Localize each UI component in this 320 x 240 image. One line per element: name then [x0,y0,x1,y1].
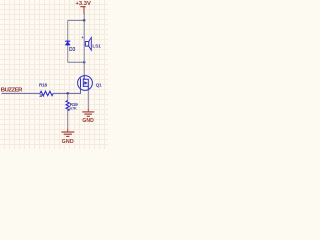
zigzag body [40,91,53,95]
ground GND at R19 bottom [61,129,74,145]
zigzag body [66,101,69,111]
cathode bar [65,40,70,42]
svg-text:BUZZER: BUZZER [1,87,23,93]
node top junction [83,19,86,22]
body circle [78,76,93,91]
ground bar 2 [64,133,72,135]
channel bar [82,78,84,87]
source stub [83,85,88,87]
svg-text:4.7K: 4.7K [70,106,77,110]
ground stub [87,109,89,112]
resistor R19 [66,93,78,128]
wire power to top rail [83,14,85,21]
svg-text:D3: D3 [69,47,76,53]
wire buzzer net left segment [2,92,41,94]
anode triangle [65,42,70,46]
drain-source conductor [83,79,88,90]
svg-text:Q1: Q1 [96,82,102,87]
ground GND at transistor source [82,109,94,124]
svg-text:+3.3V: +3.3V [76,1,91,7]
wire source to ground [87,90,89,109]
wire diode branch bottom horizontal [68,61,85,63]
ground bar 1 [61,131,74,133]
ground bar 3 [66,135,69,137]
svg-text:1K: 1K [39,93,44,98]
pin stubs [84,42,85,45]
diode D3 [65,41,75,53]
ground bar 2 [84,113,92,115]
ground bar 1 [82,111,94,113]
bulk arrow [84,81,87,85]
wire speaker branch vertical [83,20,85,76]
power bar [80,6,85,8]
wire top lead [67,93,69,100]
bulk link [83,82,84,84]
svg-text:GND: GND [62,139,74,145]
wire diode branch vertical [67,20,69,62]
speaker LS1 [82,35,102,50]
gate bar [80,78,82,87]
resistor R18 [39,83,53,99]
ground bar 3 [87,115,90,117]
wire bottom lead [67,110,69,129]
speaker cone [89,38,92,51]
svg-text:R18: R18 [39,83,48,89]
node gate/R19 junction [66,92,69,95]
drain stub [83,76,85,80]
power port +3.3V [76,1,91,14]
wire buzzer net right segment to gate [53,87,80,94]
svg-text:LS1: LS1 [92,44,101,50]
svg-text:GND: GND [82,118,94,124]
transistor Q1 N-MOSFET [78,76,103,91]
ground stub [67,129,69,132]
power pin lead [83,7,85,14]
speaker body [85,42,88,47]
wire top horizontal rail [68,19,85,21]
node drain junction [83,61,86,64]
